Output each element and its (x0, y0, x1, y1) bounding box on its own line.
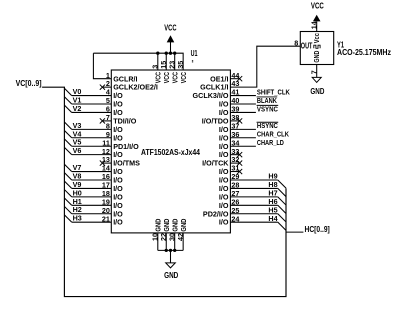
svg-text:GND: GND (164, 270, 178, 280)
svg-text:GND: GND (179, 219, 188, 232)
svg-text:I/O: I/O (113, 218, 123, 227)
svg-text:GND: GND (310, 86, 324, 96)
svg-text:7: 7 (309, 70, 318, 74)
svg-text:Vcc: Vcc (312, 33, 321, 43)
svg-text:OUT: OUT (301, 41, 313, 51)
svg-text:I/O: I/O (219, 218, 229, 227)
svg-text:8: 8 (294, 38, 298, 47)
svg-text:GND: GND (312, 51, 321, 63)
svg-text:U1: U1 (191, 48, 198, 58)
svg-text:VCC: VCC (179, 72, 188, 83)
svg-text:H3: H3 (73, 214, 82, 223)
svg-text:35: 35 (176, 61, 185, 69)
svg-text:ATF1502AS-xJx44: ATF1502AS-xJx44 (141, 147, 200, 157)
svg-text:VCC: VCC (311, 0, 324, 10)
svg-text:VC[0..9]: VC[0..9] (16, 78, 42, 88)
svg-text:V6: V6 (73, 146, 82, 155)
svg-text:21: 21 (102, 214, 110, 223)
svg-text:ACO-25.175MHz: ACO-25.175MHz (337, 47, 391, 57)
svg-text:14: 14 (309, 21, 318, 29)
svg-text:VSYNC: VSYNC (257, 104, 278, 113)
svg-text:CHAR_LD: CHAR_LD (257, 138, 284, 147)
svg-text:42: 42 (176, 233, 185, 241)
svg-text:H4: H4 (268, 214, 277, 223)
svg-text:V2: V2 (73, 104, 82, 113)
svg-text:VCC: VCC (164, 22, 176, 32)
svg-text:24: 24 (231, 214, 239, 223)
svg-text:HC[0..9]: HC[0..9] (305, 224, 330, 234)
